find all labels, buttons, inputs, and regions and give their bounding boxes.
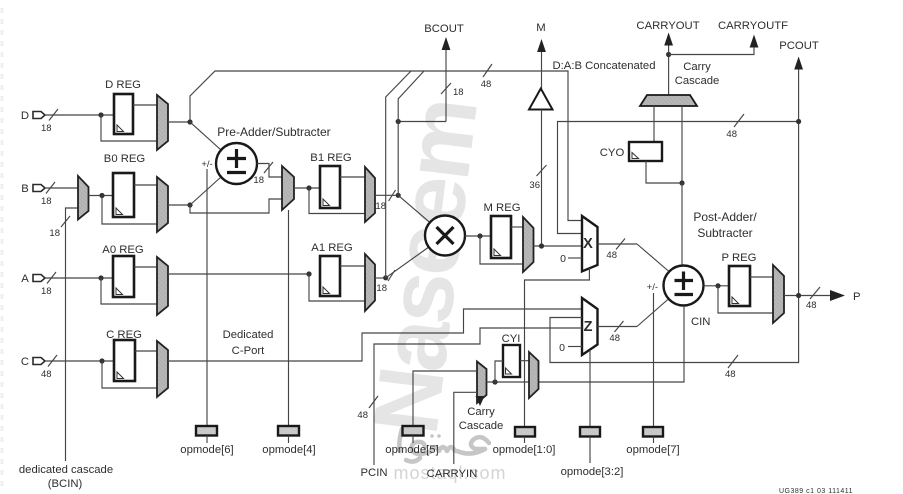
wire B1 out bbox=[375, 194, 398, 196]
svg-text:Carry: Carry bbox=[467, 406, 495, 418]
wire CARRYIN in bbox=[454, 392, 477, 464]
bus slash A 18 bbox=[47, 272, 56, 284]
svg-text:18: 18 bbox=[41, 123, 52, 134]
svg-text:48: 48 bbox=[725, 369, 736, 380]
wire B1 to multiplier bbox=[398, 195, 430, 222]
svg-text:CIN: CIN bbox=[691, 316, 710, 328]
wire Z out bbox=[598, 326, 638, 328]
wire carry cascade down bbox=[681, 106, 683, 183]
svg-text:48: 48 bbox=[481, 79, 492, 90]
wire A1 out bbox=[375, 277, 386, 279]
svg-text:opmode[6]: opmode[6] bbox=[180, 444, 233, 456]
node A1 junction bbox=[306, 271, 311, 276]
svg-text:CYO: CYO bbox=[600, 147, 625, 159]
node P junction bbox=[715, 283, 720, 288]
svg-text:opmode[7]: opmode[7] bbox=[626, 444, 679, 456]
node B1 out junction bbox=[396, 193, 401, 198]
svg-text:B0 REG: B0 REG bbox=[104, 153, 145, 165]
wire D input bbox=[45, 114, 114, 116]
wire P reg out bbox=[750, 276, 773, 278]
svg-text:18: 18 bbox=[375, 201, 386, 212]
node C junction bbox=[99, 358, 104, 363]
bus slash C 48 bbox=[48, 355, 57, 367]
node CARRYOUT branch junction bbox=[666, 52, 671, 57]
wire carry mux out bbox=[487, 381, 530, 383]
node D mux junction bbox=[187, 119, 192, 124]
mux carry-cascade top trapezoid bbox=[640, 95, 697, 106]
arrowhead P bbox=[830, 290, 845, 301]
svg-text:X: X bbox=[583, 236, 593, 252]
arrowhead M bbox=[537, 39, 546, 52]
node B1 junction bbox=[306, 185, 311, 190]
svg-text:PCIN: PCIN bbox=[361, 467, 388, 479]
wire CYI reg in bbox=[495, 361, 503, 382]
bus slash P 48 bbox=[810, 287, 820, 299]
wire A1 to multiplier bbox=[386, 247, 429, 278]
svg-text:opmode[3:2]: opmode[3:2] bbox=[561, 466, 624, 478]
wire B0 mux out bbox=[168, 204, 190, 206]
mux M out bbox=[523, 217, 534, 272]
wire multiplier out bbox=[465, 235, 491, 237]
mux X bbox=[582, 216, 598, 271]
wire PCOUT stem bbox=[798, 68, 800, 296]
node A1 out junction bbox=[383, 275, 388, 280]
node A junction bbox=[98, 275, 103, 280]
arrowhead CARRYOUTF bbox=[750, 35, 759, 48]
node M out junction bbox=[539, 243, 544, 248]
svg-text:D: D bbox=[21, 110, 29, 122]
bus slash pcout-fb 48 bbox=[734, 114, 744, 127]
svg-text:C: C bbox=[21, 356, 29, 368]
bus slash preadd 18 bbox=[264, 162, 273, 173]
svg-text:B1 REG: B1 REG bbox=[310, 152, 351, 164]
wire opmode6 select bbox=[206, 169, 208, 426]
config box opmode6 bbox=[196, 426, 217, 443]
wire B0 to pre-adder bbox=[190, 177, 221, 205]
mux C bbox=[157, 341, 168, 397]
mux B0 bbox=[157, 177, 168, 232]
svg-text:opmode[4]: opmode[4] bbox=[262, 444, 315, 456]
svg-text:+/-: +/- bbox=[647, 282, 658, 293]
wire BCOUT stem bbox=[445, 48, 447, 122]
arrowhead BCOUT bbox=[442, 37, 451, 50]
svg-text:A1 REG: A1 REG bbox=[311, 242, 352, 254]
svg-text:A0 REG: A0 REG bbox=[102, 244, 143, 256]
node P out junction bbox=[796, 293, 801, 298]
wire M stem lower bbox=[541, 110, 543, 247]
bus slash B 18 bbox=[46, 182, 55, 194]
wire B mux out bbox=[89, 195, 114, 197]
svg-text:Post-Adder/: Post-Adder/ bbox=[693, 210, 757, 224]
wire C input bbox=[45, 360, 114, 362]
svg-text:A: A bbox=[21, 273, 29, 285]
config box opmode7 bbox=[643, 427, 663, 443]
wire CYO output bbox=[646, 161, 682, 183]
svg-text:18: 18 bbox=[41, 196, 52, 207]
wire X zero bbox=[568, 257, 582, 259]
svg-text:CARRYIN: CARRYIN bbox=[427, 468, 478, 480]
svg-text:+/-: +/- bbox=[201, 159, 212, 170]
arrowhead CARRYOUT bbox=[664, 33, 673, 46]
wire CYI reg out bbox=[520, 360, 529, 362]
svg-text:48: 48 bbox=[726, 129, 737, 140]
wire Z zero bbox=[568, 346, 582, 348]
wire carry cascade to CYO bbox=[653, 106, 655, 142]
bus slash DAB 48 bbox=[483, 64, 492, 77]
wire B0 bypass bbox=[102, 196, 157, 225]
wire B input bbox=[45, 187, 78, 189]
mux A0 bbox=[157, 257, 168, 315]
wire C-port line bbox=[168, 309, 582, 361]
svg-text:18: 18 bbox=[453, 87, 464, 98]
register B1 REG bbox=[320, 166, 340, 208]
watermark Naseem diagonal bbox=[355, 95, 497, 440]
svg-text:BCOUT: BCOUT bbox=[424, 23, 464, 35]
wire D reg out bbox=[133, 104, 157, 106]
svg-text:48: 48 bbox=[609, 333, 620, 344]
svg-text:Z: Z bbox=[584, 319, 593, 335]
svg-text:M REG: M REG bbox=[483, 202, 520, 214]
svg-text:UG389 c1 03 111411: UG389 c1 03 111411 bbox=[779, 488, 853, 494]
svg-text:0: 0 bbox=[560, 253, 566, 265]
wire BCOUT tap horizontal bbox=[398, 121, 446, 123]
svg-text:CYI: CYI bbox=[502, 333, 521, 345]
register A1 REG bbox=[320, 256, 340, 296]
svg-text:18: 18 bbox=[376, 283, 387, 294]
node D junction bbox=[98, 112, 103, 117]
op-amp post-adder circle bbox=[664, 266, 704, 306]
arrowhead PCOUT bbox=[794, 57, 803, 70]
svg-text:Carry: Carry bbox=[683, 61, 711, 73]
bus slash B1 18 bbox=[389, 190, 396, 201]
wire P bypass bbox=[718, 286, 773, 313]
wire P feedback to Z bbox=[550, 296, 799, 363]
svg-text:Subtracter: Subtracter bbox=[697, 226, 752, 240]
wire post-adder out bbox=[704, 285, 730, 287]
bus slash BCIN 18 bbox=[61, 216, 70, 227]
bus slash D 18 bbox=[49, 109, 58, 121]
svg-text:C-Port: C-Port bbox=[232, 345, 265, 357]
svg-text:M: M bbox=[536, 22, 545, 34]
wire PCOUT feedback to X bbox=[558, 122, 799, 234]
svg-text:P REG: P REG bbox=[722, 252, 757, 264]
svg-text:PCOUT: PCOUT bbox=[779, 40, 819, 52]
wire P out bbox=[784, 295, 830, 297]
wire opmode7 select bbox=[653, 293, 655, 427]
wire A0 reg out bbox=[134, 266, 157, 268]
bus slash BCOUT 18 bbox=[441, 83, 451, 94]
svg-text:48: 48 bbox=[357, 410, 368, 421]
wire Z select bbox=[589, 350, 591, 427]
config box opmode32 bbox=[580, 427, 600, 463]
config box opmode10 bbox=[515, 427, 535, 443]
wire B cascade up bbox=[398, 71, 424, 195]
op-amp pre-adder circle bbox=[216, 143, 257, 184]
wire B0 reg out bbox=[134, 184, 157, 186]
register B0 REG bbox=[113, 173, 134, 217]
register C REG bbox=[114, 340, 135, 381]
bus slash PCIN 48 bbox=[369, 396, 378, 408]
svg-text:B: B bbox=[21, 183, 29, 195]
bus slash Z 48 bbox=[615, 321, 624, 332]
svg-text:18: 18 bbox=[49, 228, 60, 239]
wire X select bbox=[525, 268, 590, 427]
svg-text:CARRYOUTF: CARRYOUTF bbox=[718, 20, 788, 32]
wire DAB bus bbox=[190, 71, 582, 221]
node PCOUT feedback junction bbox=[796, 119, 801, 124]
bus slash M 36 bbox=[537, 165, 547, 176]
register CYI bbox=[503, 345, 520, 377]
mux P out bbox=[773, 265, 784, 323]
svg-text:48: 48 bbox=[41, 369, 52, 380]
node M junction bbox=[477, 233, 482, 238]
config box opmode4 bbox=[278, 210, 299, 443]
node carry junction bbox=[492, 379, 497, 384]
wire A1 bypass bbox=[309, 274, 365, 301]
wire B0 bypass to B1 mux bbox=[190, 199, 282, 213]
wire A1 reg out bbox=[340, 265, 365, 267]
svg-text:18: 18 bbox=[41, 286, 52, 297]
svg-text:48: 48 bbox=[606, 250, 617, 261]
wire C bypass bbox=[102, 361, 157, 388]
mux carry-cascade bbox=[477, 362, 487, 404]
wire B1 reg out bbox=[340, 176, 365, 178]
svg-text:0: 0 bbox=[559, 342, 565, 354]
wire CIN bbox=[539, 306, 685, 382]
wire C reg out bbox=[135, 350, 157, 352]
wire M bypass bbox=[480, 236, 523, 264]
svg-text:Cascade: Cascade bbox=[459, 420, 504, 432]
mux B1 out bbox=[365, 167, 375, 222]
left edge scan artifacts bbox=[1, 8, 4, 486]
svg-text:opmode[5]: opmode[5] bbox=[385, 444, 438, 456]
svg-text:18: 18 bbox=[253, 175, 264, 186]
wire M out bbox=[534, 245, 583, 247]
svg-text:48: 48 bbox=[806, 300, 817, 311]
wire CARRYOUT stem bbox=[668, 44, 670, 95]
wire CARRYOUTF branch bbox=[669, 46, 754, 55]
wire A0 bypass bbox=[101, 278, 157, 304]
wire A cascade up bbox=[386, 71, 411, 278]
svg-text:36: 36 bbox=[529, 180, 540, 191]
wire A0 mux out bbox=[168, 273, 309, 275]
svg-text:(BCIN): (BCIN) bbox=[48, 478, 83, 490]
wire X out bbox=[598, 243, 638, 245]
wire D bypass bbox=[101, 115, 157, 141]
svg-text:CARRYOUT: CARRYOUT bbox=[636, 20, 699, 32]
svg-text:D:A:B Concatenated: D:A:B Concatenated bbox=[553, 60, 656, 72]
mux A1 out bbox=[365, 254, 375, 311]
register D REG bbox=[114, 94, 133, 134]
wire PCIN path bbox=[374, 328, 582, 465]
register CYO bbox=[629, 142, 662, 161]
mux B input bbox=[78, 176, 89, 220]
svg-text:P: P bbox=[853, 291, 861, 303]
arrowhead carry cascade down bbox=[476, 396, 485, 406]
node B junction bbox=[99, 193, 104, 198]
svg-text:dedicated cascade: dedicated cascade bbox=[19, 464, 113, 476]
watermark mostaql arabic bbox=[399, 429, 489, 462]
register M REG bbox=[491, 216, 511, 258]
svg-text:D REG: D REG bbox=[105, 79, 141, 91]
register A0 REG bbox=[113, 256, 134, 297]
wire M reg out bbox=[511, 226, 523, 228]
mux D bbox=[157, 95, 168, 150]
multiplier circle bbox=[425, 216, 465, 256]
mux CYI out bbox=[529, 352, 539, 398]
mux B1 bbox=[282, 166, 294, 210]
svg-text:Cascade: Cascade bbox=[675, 75, 720, 87]
wire D mux out bbox=[168, 121, 190, 123]
wire pre-adder out bbox=[257, 164, 282, 178]
buffer concat triangle bbox=[529, 89, 553, 110]
svg-text:Dedicated: Dedicated bbox=[223, 329, 274, 341]
wire Z to post-adder bbox=[637, 299, 668, 327]
mux Z bbox=[582, 298, 598, 355]
bus slash pfb 48 bbox=[728, 355, 738, 368]
wire BCIN cascade bbox=[66, 208, 79, 461]
wire carry to post-adder top bbox=[681, 183, 683, 266]
wire B1 mux out bbox=[294, 187, 320, 189]
bus slash A1 18 bbox=[388, 270, 395, 281]
register P REG bbox=[729, 266, 750, 306]
bus slash X 48 bbox=[616, 239, 625, 250]
wire M stem upper bbox=[541, 50, 543, 89]
node BCOUT tap junction bbox=[396, 119, 401, 124]
config box opmode5 bbox=[403, 426, 424, 443]
svg-text:opmode[1:0]: opmode[1:0] bbox=[493, 444, 556, 456]
wire opmode5 to carry mux bbox=[413, 371, 477, 426]
wire B1 bypass bbox=[309, 188, 365, 214]
node CYO junction bbox=[679, 180, 684, 185]
wire A input bbox=[45, 277, 114, 279]
svg-text:Pre-Adder/Subtracter: Pre-Adder/Subtracter bbox=[217, 125, 330, 139]
wire D to pre-adder bbox=[190, 122, 221, 150]
node B0 junction bbox=[187, 202, 192, 207]
wire X to post-adder bbox=[637, 244, 668, 271]
